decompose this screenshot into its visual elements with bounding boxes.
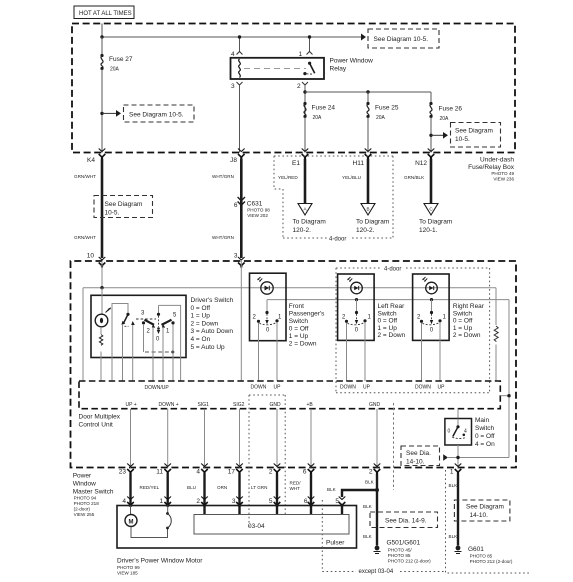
svg-text:Passenger's: Passenger's — [289, 311, 325, 318]
svg-text:N12: N12 — [415, 160, 427, 167]
svg-text:Control Unit: Control Unit — [79, 421, 114, 428]
connector C631 — [234, 197, 270, 218]
svg-text:Fuse 24: Fuse 24 — [312, 105, 336, 112]
pulser 03-04 box — [194, 515, 349, 535]
see dia 14-9 box — [370, 512, 438, 528]
connector E1 — [292, 149, 308, 168]
svg-text:14-10.: 14-10. — [406, 459, 425, 466]
svg-text:+B: +B — [307, 402, 314, 408]
svg-text:Under-dash: Under-dash — [480, 157, 514, 164]
wire: DMCU to main switch feed — [500, 395, 509, 397]
motor loop wire + brush arc — [131, 506, 171, 538]
wire: feed to fuses 24/25/26 — [303, 90, 431, 103]
ground wire G601 (BLK) — [449, 474, 459, 546]
svg-text:G601: G601 — [468, 546, 484, 553]
svg-text:1: 1 — [450, 469, 454, 476]
svg-text:Switch: Switch — [453, 310, 473, 317]
svg-text:Relay: Relay — [330, 66, 347, 73]
svg-text:Fuse 25: Fuse 25 — [375, 105, 399, 112]
ground symbol G601 — [455, 546, 513, 564]
svg-text:Switch: Switch — [475, 425, 495, 432]
svg-text:See Diagram 10-5.: See Diagram 10-5. — [129, 112, 184, 119]
svg-text:Driver's Power Window Motor: Driver's Power Window Motor — [117, 558, 203, 565]
right rear switch contacts — [417, 298, 447, 381]
svg-text:1: 1 — [299, 51, 303, 58]
node: fuse27 wire junction + arrow to see box — [100, 110, 121, 117]
svg-text:H11: H11 — [353, 160, 365, 167]
connector N12 — [415, 149, 434, 168]
svg-text:GRN/BLK: GRN/BLK — [404, 175, 425, 180]
DMCU pin function labels — [126, 402, 381, 408]
svg-text:PHOTO 94: PHOTO 94 — [74, 496, 97, 501]
svg-text:HOT AT ALL TIMES: HOT AT ALL TIMES — [79, 11, 132, 17]
svg-text:Main: Main — [475, 417, 489, 424]
svg-text:0 = Off: 0 = Off — [453, 318, 473, 325]
driver's switch rocker contacts — [136, 305, 181, 381]
svg-text:Left Rear: Left Rear — [378, 303, 406, 310]
power window relay — [231, 58, 374, 80]
svg-text:DOWN +: DOWN + — [159, 402, 179, 408]
driver's switch lamp resistor — [99, 327, 102, 381]
svg-text:VIEW 236: VIEW 236 — [493, 177, 514, 182]
svg-text:K4: K4 — [87, 157, 95, 164]
svg-text:Door Multiplex: Door Multiplex — [79, 414, 121, 421]
svg-text:SIG2: SIG2 — [233, 402, 245, 408]
wire: lamp return + resistor (right) — [494, 288, 498, 381]
svg-text:To Diagram: To Diagram — [356, 219, 389, 226]
wires: DMCU outputs to master switch pins — [131, 409, 378, 468]
svg-text:Fuse/Relay Box: Fuse/Relay Box — [468, 164, 515, 171]
svg-text:ORN: ORN — [217, 485, 227, 490]
svg-text:WHT: WHT — [290, 486, 301, 491]
fuse 26 — [429, 102, 462, 122]
svg-text:except 03-04: except 03-04 — [359, 569, 394, 575]
svg-text:B: B — [366, 207, 369, 212]
svg-text:0 = Off: 0 = Off — [289, 326, 309, 333]
driver's switch contact 4 (on) — [112, 304, 135, 382]
see diagram 10-5 box (top right) — [368, 29, 439, 48]
svg-text:YEL/BLU: YEL/BLU — [342, 175, 361, 180]
main switch box — [445, 419, 472, 446]
motor M — [125, 506, 137, 527]
svg-text:5: 5 — [269, 498, 273, 505]
svg-text:4: 4 — [464, 429, 467, 435]
svg-text:2: 2 — [297, 83, 301, 90]
relay internal dashed link — [244, 68, 306, 70]
front passenger's switch legend — [289, 303, 325, 348]
svg-text:20A: 20A — [376, 115, 386, 121]
connector X at pin 3 — [238, 257, 245, 268]
door multiplex control unit strip (dashed) — [79, 381, 500, 409]
svg-text:DOWN: DOWN — [415, 385, 431, 391]
svg-text:LT GRN: LT GRN — [251, 485, 267, 490]
main switch legend — [475, 417, 495, 448]
svg-text:10: 10 — [87, 253, 95, 260]
svg-text:GND: GND — [369, 402, 381, 408]
svg-text:Master Switch: Master Switch — [73, 489, 114, 496]
right rear switch legend — [453, 303, 485, 339]
svg-text:To Diagram: To Diagram — [419, 219, 452, 226]
relay pin 2 — [297, 82, 308, 153]
BLK pulser ground wire (pin2 to pin5) — [327, 474, 379, 515]
svg-text:BLK: BLK — [365, 480, 375, 485]
node at 509,395.7 — [507, 394, 510, 397]
svg-text:0 = Off: 0 = Off — [191, 305, 211, 312]
svg-text:E1: E1 — [292, 160, 300, 167]
svg-text:2: 2 — [196, 498, 200, 505]
svg-text:Front: Front — [289, 303, 304, 310]
wire colors row — [140, 481, 302, 492]
svg-text:PHOTO 85: PHOTO 85 — [470, 554, 493, 559]
svg-text:4 = On: 4 = On — [191, 336, 211, 343]
node + arrow to see box (fuse 26) — [429, 132, 448, 139]
svg-text:Power: Power — [73, 473, 92, 480]
svg-text:03-04: 03-04 — [248, 523, 265, 530]
to diagram 120-1 triangle C — [419, 204, 452, 235]
fuse 27 — [100, 37, 132, 153]
svg-text:4: 4 — [196, 469, 200, 476]
svg-text:VIEW 185: VIEW 185 — [117, 570, 138, 575]
svg-text:6: 6 — [303, 469, 307, 476]
svg-text:Driver's Switch: Driver's Switch — [191, 297, 234, 304]
front passenger's switch box — [250, 273, 287, 341]
svg-text:6: 6 — [234, 202, 238, 209]
svg-text:(2-door): (2-door) — [74, 507, 91, 512]
power window master switch label — [73, 473, 114, 518]
svg-text:BLK: BLK — [327, 487, 337, 492]
motor pin row labels — [122, 498, 339, 505]
relay pin 4 — [231, 35, 243, 58]
door multiplex control unit label — [79, 414, 121, 429]
left rear switch legend — [378, 303, 406, 339]
fuse 25 — [366, 102, 398, 121]
svg-text:SIG1: SIG1 — [198, 402, 210, 408]
dashed variant line (2-door region) — [393, 403, 395, 490]
wire: J8 feed into DMCU — [240, 261, 242, 381]
right rear switch lamp — [423, 277, 438, 294]
relay pin 1 — [299, 35, 313, 58]
svg-text:5: 5 — [335, 498, 339, 505]
wire J8 WHT/GRN (heavy) — [240, 159, 243, 258]
svg-text:5 = Auto Up: 5 = Auto Up — [191, 344, 226, 351]
svg-text:1 = Up: 1 = Up — [289, 333, 309, 340]
wire: main bus from K4 drop to arrow — [100, 24, 362, 39]
see dia 14-10 box (left of main switch) — [401, 446, 440, 466]
wire: lamp feed bus — [83, 261, 496, 381]
wire H11 YEL/BLU (heavy) — [367, 159, 370, 203]
svg-text:11: 11 — [156, 469, 163, 476]
relay pin 3 — [231, 82, 243, 153]
svg-text:See Diagram: See Diagram — [466, 504, 504, 511]
svg-text:23: 23 — [119, 469, 127, 476]
connector H11 — [353, 149, 372, 168]
svg-text:VIEW 255: VIEW 255 — [74, 512, 95, 517]
heavy wires between connector rows — [131, 474, 312, 515]
svg-text:3 = Auto Down: 3 = Auto Down — [191, 328, 234, 335]
svg-text:PHOTO 218: PHOTO 218 — [74, 501, 100, 506]
svg-text:14-10.: 14-10. — [470, 512, 489, 519]
connector J8 — [230, 149, 244, 165]
svg-text:PHOTO 212 (2-door): PHOTO 212 (2-door) — [388, 559, 431, 564]
svg-text:See Diagram: See Diagram — [455, 128, 493, 135]
svg-text:1 = Up: 1 = Up — [378, 325, 398, 332]
svg-text:BLK: BLK — [363, 504, 373, 509]
svg-text:17: 17 — [228, 469, 236, 476]
svg-text:4-door: 4-door — [384, 267, 401, 273]
svg-text:RED/: RED/ — [290, 481, 302, 486]
svg-text:GRN/WHT: GRN/WHT — [74, 174, 96, 179]
arrow + wire at y=457.5 — [443, 454, 509, 461]
svg-text:PHOTO 85: PHOTO 85 — [388, 553, 411, 558]
svg-text:G501/G601: G501/G601 — [387, 540, 421, 547]
fuse 24 — [303, 102, 335, 121]
to diagram 120-2 triangle A — [293, 204, 326, 235]
svg-text:120-2.: 120-2. — [356, 227, 375, 234]
connector X at pin 10 — [99, 257, 106, 268]
svg-text:0 = Off: 0 = Off — [378, 318, 398, 325]
svg-text:120-1.: 120-1. — [419, 227, 438, 234]
svg-text:BLK: BLK — [363, 534, 373, 539]
ground symbol G501/G601 — [374, 540, 432, 564]
svg-text:Switch: Switch — [289, 318, 309, 325]
svg-text:1 = Up: 1 = Up — [453, 325, 473, 332]
see diagram 10-5 box (on GRN/WHT wire) — [94, 196, 153, 218]
svg-text:1 = Up: 1 = Up — [191, 313, 211, 320]
relay coil — [239, 59, 241, 78]
svg-text:M: M — [129, 519, 134, 525]
svg-text:PHOTO 98: PHOTO 98 — [247, 208, 270, 213]
svg-text:Fuse 26: Fuse 26 — [439, 106, 463, 113]
ground wire G501/G601 (BLK) — [363, 480, 377, 546]
svg-text:2 = Down: 2 = Down — [453, 332, 481, 339]
connector X row at motor (y=501) — [127, 497, 345, 508]
wire E1 YEL/RED (heavy) — [304, 159, 307, 203]
left rear switch box — [338, 274, 375, 340]
svg-text:WHT/GRN: WHT/GRN — [212, 174, 234, 179]
4-door dotted region (top section) — [274, 156, 393, 243]
wire: switch common bus — [267, 300, 509, 458]
left rear switch contacts — [342, 298, 372, 381]
see diagram 10-5 box (right, two lines) — [451, 123, 501, 148]
svg-text:PHOTO 45/: PHOTO 45/ — [388, 548, 413, 553]
svg-text:See Diagram 10-5.: See Diagram 10-5. — [374, 36, 429, 43]
svg-text:UP +: UP + — [126, 402, 137, 408]
svg-text:20A: 20A — [313, 115, 323, 121]
svg-text:20A: 20A — [110, 67, 120, 73]
master switch pin row labels — [119, 469, 454, 476]
svg-text:RED/YEL: RED/YEL — [140, 485, 160, 490]
right rear switch box — [413, 274, 450, 340]
svg-text:0: 0 — [448, 429, 451, 435]
svg-text:Pulser: Pulser — [326, 540, 345, 547]
svg-text:Fuse 27: Fuse 27 — [109, 56, 133, 63]
svg-text:BLU: BLU — [187, 485, 196, 490]
svg-text:GND: GND — [270, 402, 282, 408]
svg-text:10-5.: 10-5. — [455, 136, 470, 143]
svg-text:C631: C631 — [247, 201, 263, 208]
svg-text:2 = Down: 2 = Down — [378, 332, 406, 339]
see diagram 14-10 box (right) — [454, 500, 510, 521]
see diagram 10-5 box (left, inside fuse box) — [124, 105, 195, 122]
svg-text:3: 3 — [232, 498, 236, 505]
connector K4 — [87, 149, 105, 165]
svg-text:2 = Down: 2 = Down — [289, 341, 317, 348]
svg-text:YEL/RED: YEL/RED — [278, 175, 298, 180]
svg-text:DOWN/UP: DOWN/UP — [145, 385, 170, 391]
svg-text:VIEW 202: VIEW 202 — [247, 213, 268, 218]
driver's switch box — [91, 295, 186, 357]
wires below fuses — [305, 117, 431, 153]
under-dash box label — [468, 157, 515, 182]
svg-text:3: 3 — [234, 253, 238, 260]
driver's switch illumination lamp — [95, 288, 111, 327]
svg-text:See Diagram: See Diagram — [105, 201, 143, 208]
svg-text:UP: UP — [438, 385, 446, 391]
wire N12 GRN/BLK (heavy) — [430, 159, 433, 203]
svg-text:3: 3 — [231, 83, 235, 90]
front passenger's switch lamp — [258, 277, 274, 294]
svg-text:1: 1 — [159, 498, 163, 505]
svg-text:0 = Off: 0 = Off — [475, 433, 495, 440]
svg-text:6: 6 — [304, 498, 308, 505]
main switch feed wire — [457, 409, 459, 419]
svg-text:2: 2 — [269, 469, 273, 476]
svg-text:WHT/GRN: WHT/GRN — [212, 235, 234, 240]
svg-text:PHOTO 49: PHOTO 49 — [491, 171, 514, 176]
svg-text:PHOTO 99: PHOTO 99 — [117, 565, 140, 570]
svg-text:Switch: Switch — [378, 310, 398, 317]
svg-text:UP: UP — [363, 385, 371, 391]
svg-text:UP: UP — [274, 385, 282, 391]
svg-text:PHOTO 212 (2-door): PHOTO 212 (2-door) — [470, 559, 513, 564]
svg-text:DOWN: DOWN — [251, 385, 267, 391]
relay contact — [303, 62, 314, 76]
4-door dotted region (switch section) — [336, 267, 490, 393]
svg-text:DOWN: DOWN — [340, 385, 356, 391]
svg-text:Power Window: Power Window — [330, 58, 374, 65]
svg-text:10-5.: 10-5. — [105, 210, 120, 217]
svg-text:See Dia. 14-9.: See Dia. 14-9. — [385, 518, 427, 525]
left rear switch lamp — [348, 277, 363, 294]
dotted variant region around GND column — [249, 395, 285, 527]
label HOT AT ALL TIMES — [74, 6, 134, 19]
svg-text:Right Rear: Right Rear — [453, 303, 485, 310]
front passenger's switch contacts — [253, 300, 283, 381]
svg-text:4: 4 — [231, 51, 235, 58]
svg-text:4 = On: 4 = On — [475, 441, 495, 448]
svg-text:J8: J8 — [230, 157, 237, 164]
svg-text:See Dia.: See Dia. — [406, 450, 431, 457]
svg-text:BLK: BLK — [449, 483, 459, 488]
svg-text:To Diagram: To Diagram — [293, 219, 326, 226]
to diagram 120-2 triangle B — [356, 204, 389, 235]
svg-text:2: 2 — [369, 469, 373, 476]
svg-text:120-2.: 120-2. — [293, 227, 312, 234]
svg-text:2 = Down: 2 = Down — [191, 320, 219, 327]
svg-text:BLK: BLK — [449, 534, 459, 539]
svg-text:4: 4 — [122, 498, 126, 505]
under-dash fuse/relay box (dashed border) — [72, 24, 515, 153]
wire K4 GRN/WHT (heavy) — [101, 159, 104, 258]
arrow to See Diagram 10-5 (top right) — [361, 34, 366, 41]
driver's power window motor label — [117, 558, 203, 576]
svg-text:Window: Window — [73, 481, 96, 488]
main switch contacts — [448, 419, 468, 439]
wire: main switch to ground junction — [457, 445, 459, 468]
power window master switch outer box (dashed) — [71, 261, 517, 468]
driver's power window motor box — [117, 506, 357, 549]
svg-text:20A: 20A — [440, 116, 450, 122]
svg-text:4-door: 4-door — [329, 237, 346, 243]
svg-text:GRN/WHT: GRN/WHT — [74, 235, 96, 240]
except 03-04 dotted region — [322, 470, 530, 575]
driver's switch legend — [191, 297, 234, 351]
connector X row at master switch (y=471) — [127, 464, 461, 475]
